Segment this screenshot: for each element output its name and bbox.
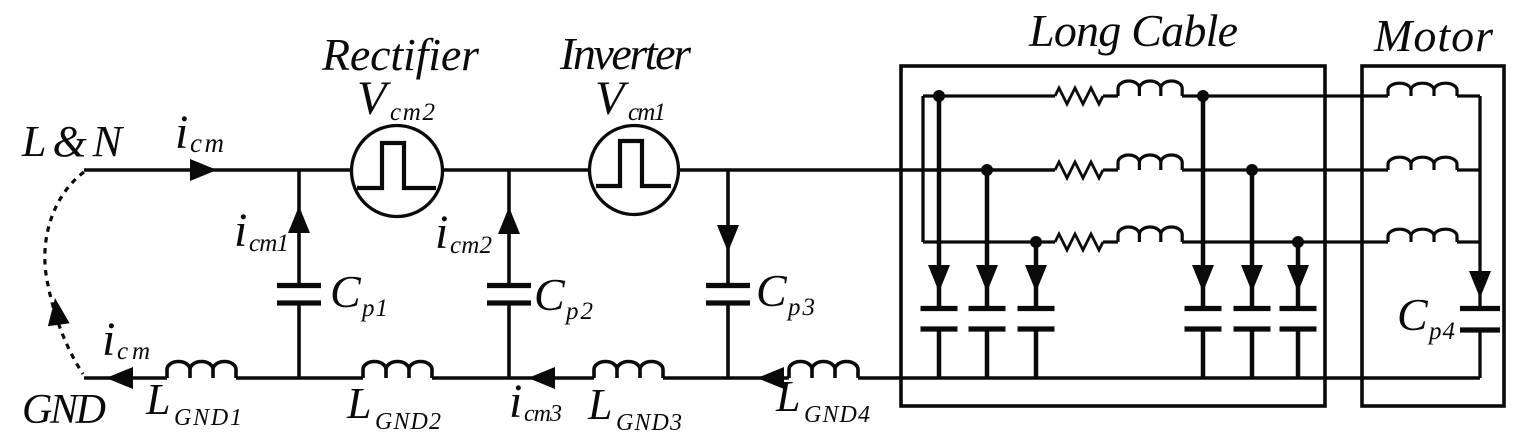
node phase B tap 2 [981,164,993,176]
long cable box [901,66,1325,406]
svg-text:L: L [775,372,800,421]
svg-text:cm1: cm1 [628,99,666,126]
svg-text:C: C [756,265,788,316]
wire rectifier to inverter [442,168,590,172]
arrow i_cm left near GND on bottom wire [106,367,133,389]
svg-text:GND4: GND4 [804,402,870,428]
svg-text:i: i [435,206,448,259]
wire bottom ground return [84,376,1480,380]
wire motor star point vertical [1478,96,1481,378]
resistor phase C [1055,234,1103,250]
svg-text:cm3: cm3 [524,401,562,427]
svg-text:C: C [330,266,362,317]
inductor L_GND2 [363,362,432,379]
svg-text:i: i [102,313,115,366]
svg-text:GND: GND [22,387,106,433]
svg-text:GND3: GND3 [616,410,682,436]
svg-text:Long Cable: Long Cable [1028,5,1238,56]
capacitor Cp1 branch [297,170,301,378]
svg-text:C: C [1397,289,1429,340]
svg-text:p3: p3 [786,294,815,321]
svg-text:cm: cm [190,128,224,158]
wire phase B middle [1103,168,1480,171]
cable capacitor branch 5 right [1250,170,1255,378]
wire phase A top [923,94,1480,97]
resistor phase B [1055,162,1103,178]
pulse waveform inside inverter [596,141,671,186]
svg-text:p4: p4 [1427,318,1455,345]
svg-text:i: i [234,204,247,257]
cable capacitor branch 1 left [937,96,942,378]
wire inverter to long cable middle phase through motor [678,168,1055,172]
inductor phase B motor winding [1388,157,1457,170]
svg-text:cm2: cm2 [450,232,492,259]
inductor phase A motor winding [1388,83,1457,96]
node phase B tap 5 [1246,164,1258,176]
capacitor Cp2 plates [487,286,531,304]
svg-text:L: L [145,375,170,424]
arrow left before L_GND4 [757,367,784,389]
inductor phase A cable [1118,81,1182,96]
arrow down into Cp3 [717,225,739,252]
svg-text:V: V [357,72,391,125]
node phase C tap 3 [1030,236,1042,248]
inductor phase C cable [1118,227,1182,242]
capacitor Cp1 plates [277,286,321,304]
svg-text:V: V [595,72,629,125]
pulse source V_cm1 inverter circle U1 [590,126,679,215]
svg-text:p1: p1 [360,295,388,322]
cable capacitor branch 3 left [1034,242,1039,378]
arrow up on dashed return path [44,296,70,326]
resistor phase A [1055,88,1103,104]
capacitor Cp4 plates [1460,309,1500,331]
capacitor Cp2 branch [507,170,511,378]
svg-text:L: L [346,379,371,428]
capacitor Cp3 plates [706,286,750,304]
arrow i_cm right on top wire [190,159,217,181]
svg-text:p2: p2 [564,298,593,325]
svg-text:cm2: cm2 [390,99,435,126]
svg-text:GND2: GND2 [375,409,441,435]
inductor L_GND4 [789,362,858,379]
cable capacitor branch 2 left [985,170,990,378]
svg-text:Motor: Motor [1373,10,1494,61]
arrow i_cm3 left on bottom wire [528,367,555,389]
arrow down into Cp4 [1469,271,1491,298]
inductor phase C motor winding [1388,229,1457,242]
svg-text:cm: cm [117,338,150,365]
pulse source V_cm2 rectifier circle U2 [352,126,443,217]
svg-text:Rectifier: Rectifier [321,29,480,80]
svg-text:Inverter: Inverter [559,28,692,79]
svg-text:L: L [587,380,612,429]
wire phase C bottom [923,240,1480,243]
node phase C tap 6 [1292,236,1304,248]
cable capacitor branch 6 right [1296,242,1301,378]
motor box [1362,66,1504,406]
capacitor Cp3 branch [726,170,730,378]
cable capacitor branch 4 right [1201,96,1206,378]
svg-text:cm1: cm1 [249,230,289,257]
wire input bracket joining three phases [921,96,924,242]
svg-text:i: i [509,375,522,428]
arrow i_cm2 up [498,207,520,234]
inductor phase B cable [1118,155,1182,170]
node phase A tap 4 [1197,90,1209,102]
svg-text:i: i [175,106,188,159]
wire top main L&N from start to rectifier [84,168,352,172]
inductor L_GND3 [594,362,663,379]
svg-text:L&N: L&N [21,117,125,166]
node phase A tap 1 [933,90,945,102]
inductor L_GND1 [167,362,236,379]
arrow i_cm1 up [288,206,310,233]
svg-text:C: C [534,269,566,320]
pulse waveform inside rectifier [357,143,436,188]
dashed return path arc L&N to GND [45,172,84,374]
svg-text:GND1: GND1 [174,405,242,431]
